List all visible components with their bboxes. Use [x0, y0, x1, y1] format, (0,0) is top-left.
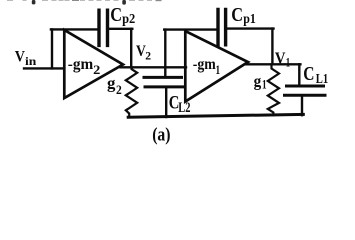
- wire: CL1 top vertical from V1: [298, 64, 300, 85]
- svg-text:2: 2: [93, 63, 100, 77]
- wire: V2 branch vertical (Cp1 left lead / CL2 top lead): [164, 30, 166, 77]
- wire: CL2 bottom stub to rail: [165, 88, 167, 117]
- svg-text:1: 1: [216, 63, 221, 77]
- wire: node V1 horizontal: [246, 63, 300, 65]
- wire: bottom ground rail: [128, 114, 303, 117]
- svg-text:p1: p1: [243, 12, 256, 27]
- wire: Cp1 top segment: [164, 28, 217, 30]
- wire: Cp1 right segment: [227, 27, 274, 29]
- svg-text:g: g: [254, 72, 262, 91]
- svg-text:1: 1: [286, 55, 290, 69]
- clipped text sliver from previous line of the page: [7, 0, 162, 5]
- wire: Cp1 right vertical down to node V1: [271, 29, 273, 65]
- svg-text:2: 2: [145, 48, 151, 62]
- svg-text:g: g: [107, 74, 116, 93]
- svg-text:1: 1: [262, 77, 267, 91]
- wire: node V2 horizontal (gm2 output to gm1 input): [121, 66, 187, 68]
- svg-text:(a): (a): [152, 125, 170, 146]
- capacitor Cp1 plates: [218, 9, 226, 44]
- op-amp U2 (-gm2) triangle: [64, 30, 123, 98]
- capacitor CL2 plates: [144, 77, 184, 87]
- resistor g2 zigzag: [126, 67, 137, 117]
- wire: Cp2 right segment: [109, 28, 132, 30]
- svg-text:C: C: [231, 4, 243, 26]
- svg-text:p2: p2: [122, 12, 135, 27]
- wire: CL1 bottom stub to rail: [301, 96, 303, 115]
- svg-text:in: in: [25, 56, 37, 68]
- svg-text:2: 2: [116, 83, 122, 97]
- svg-text:C: C: [110, 4, 122, 26]
- wire: Cp2 left vertical riser: [51, 29, 53, 68]
- svg-text:C: C: [303, 63, 314, 85]
- capacitor CL1 plates: [285, 86, 326, 95]
- wire: Cp2 top-left segment: [51, 28, 97, 30]
- svg-text:-gm: -gm: [193, 56, 217, 73]
- wire: Cp2 right vertical down to node V2: [130, 29, 132, 67]
- svg-text:L1: L1: [316, 72, 328, 87]
- resistor g1 zigzag: [268, 64, 279, 115]
- wire: Vin input lead: [24, 67, 64, 69]
- svg-text:L2: L2: [178, 100, 190, 116]
- op-amp U1 (-gm1) triangle: [185, 31, 248, 102]
- svg-text:V: V: [275, 48, 286, 67]
- svg-text:-gm: -gm: [68, 56, 94, 73]
- capacitor Cp2 plates: [99, 10, 108, 45]
